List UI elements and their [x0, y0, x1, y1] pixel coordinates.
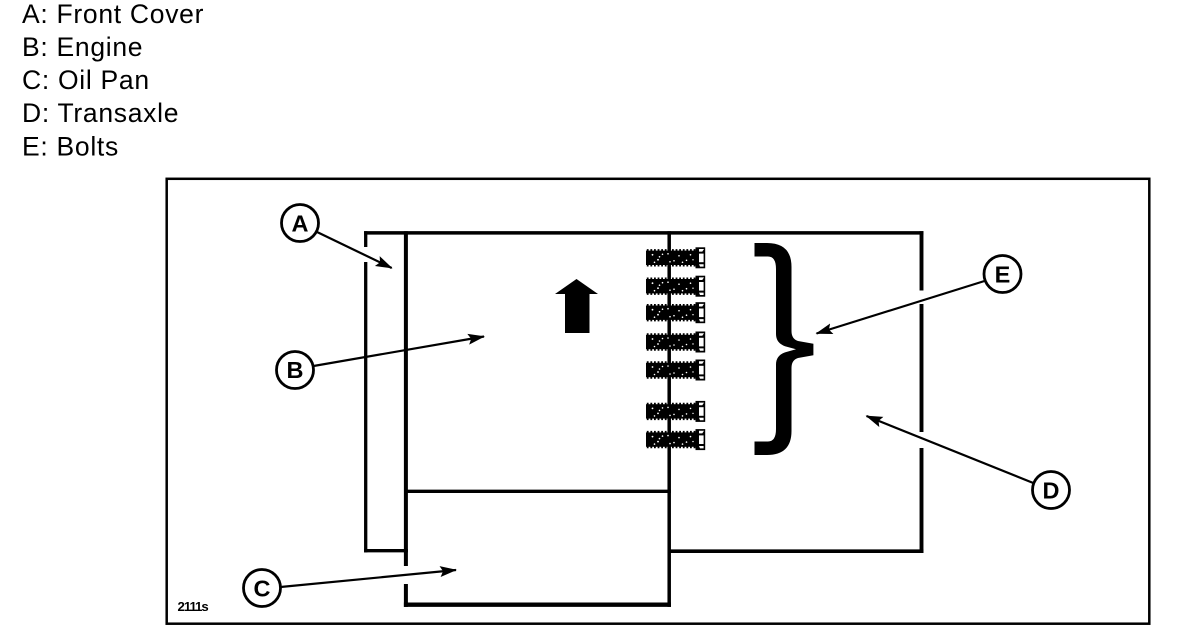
front cover A: left edge (gap where arrow A crosses) — [364, 231, 367, 247]
svg-text:B: Engine: B: Engine — [22, 32, 143, 62]
svg-text:B: B — [287, 357, 304, 383]
callout circle D — [1033, 472, 1070, 509]
svg-text:D: D — [1043, 478, 1060, 504]
transaxle D: right edge (gaps where arrows E and D cross) — [920, 231, 924, 290]
figure border frame — [167, 179, 1150, 624]
svg-text:E: E — [995, 262, 1011, 288]
bolt E4 — [646, 332, 705, 353]
bolt E3 — [646, 302, 705, 323]
callout circle A — [282, 205, 319, 242]
svg-text:C: Oil Pan: C: Oil Pan — [22, 65, 150, 95]
curly brace grouping bolts — [755, 243, 814, 455]
leader arrow C — [281, 570, 457, 587]
leader arrow B — [314, 337, 485, 367]
bolt E6 — [646, 401, 705, 422]
svg-text:2111s: 2111s — [178, 599, 209, 614]
svg-text:A: Front Cover: A: Front Cover — [22, 0, 204, 29]
svg-text:D: Transaxle: D: Transaxle — [22, 98, 179, 128]
bolt E1 — [646, 247, 705, 268]
svg-text:A: A — [292, 211, 309, 237]
leader arrow A — [316, 232, 392, 269]
callout circle E — [984, 256, 1021, 293]
oil pan C: top edge — [404, 490, 671, 493]
svg-text:E: Bolts: E: Bolts — [22, 132, 119, 162]
callout circle C — [244, 570, 281, 607]
engine B / oil pan C: shared right edge — [667, 231, 671, 607]
oil pan C: bottom edge — [404, 603, 671, 607]
leader arrow D — [867, 416, 1035, 484]
callout circle B — [277, 352, 314, 389]
top edge line (front cover / engine / transaxle tops) — [364, 231, 923, 235]
bold up arrow inside engine — [555, 279, 598, 333]
transaxle D: bottom edge — [668, 549, 924, 553]
bolt E5 — [646, 360, 705, 381]
leader arrow E — [817, 281, 985, 334]
engine B / oil pan C: shared left edge (gap where arrow C crosses) — [404, 231, 408, 566]
bolt E2 — [646, 276, 705, 297]
front cover A: bottom edge — [364, 549, 408, 552]
bolt E7 — [646, 429, 705, 450]
svg-text:C: C — [254, 576, 271, 602]
